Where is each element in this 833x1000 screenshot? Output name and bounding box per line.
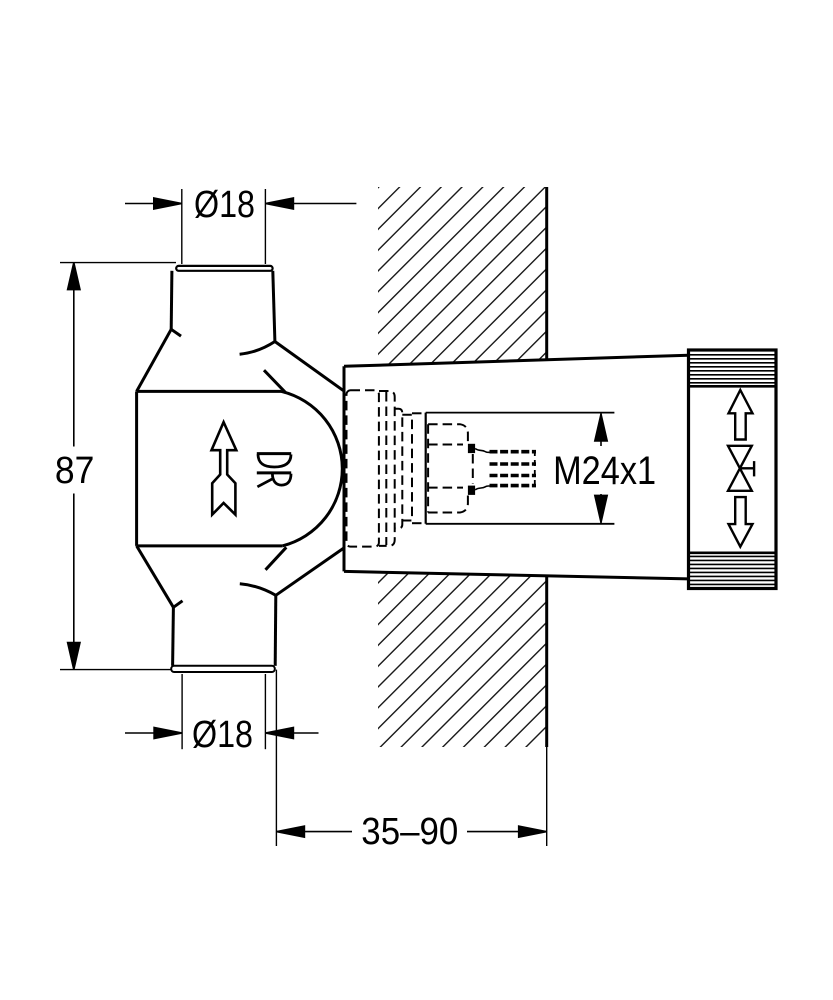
svg-text:Ø18: Ø18 [194,184,255,226]
svg-text:Ø18: Ø18 [192,714,253,756]
svg-text:35–90: 35–90 [361,811,458,853]
svg-text:87: 87 [55,450,95,492]
svg-text:M24x1: M24x1 [553,449,656,493]
